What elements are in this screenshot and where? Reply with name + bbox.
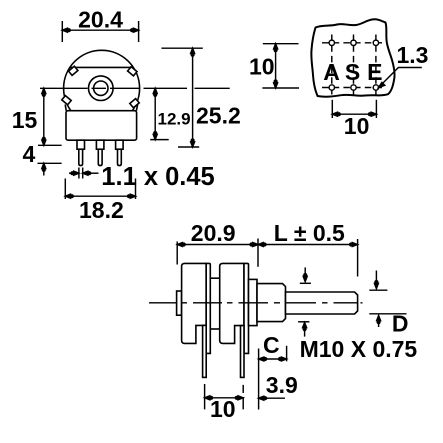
D bottom tick <box>369 313 406 315</box>
dim 20.9 arrow right <box>253 243 258 247</box>
svg-text:20.9: 20.9 <box>191 220 236 246</box>
svg-text:15: 15 <box>12 107 38 133</box>
front view: notch upper-right <box>128 67 137 76</box>
front view: pin 3 narrow <box>118 149 122 165</box>
dim C arrow left <box>259 357 264 361</box>
M10 bottom tick <box>298 321 309 323</box>
side view: wafer 1 body <box>182 263 207 343</box>
front view: top cover chord line <box>70 66 134 68</box>
pad A top <box>329 40 334 45</box>
side view centerline <box>149 302 363 304</box>
D top arrow <box>375 271 377 289</box>
dim 1.1 tick left <box>78 168 80 179</box>
M10 bottom arrow <box>304 323 306 337</box>
svg-text:S: S <box>345 59 360 85</box>
pad view: column centerline S <box>353 35 355 97</box>
svg-text:A: A <box>323 59 340 85</box>
dim 25.2 bottom tick <box>178 146 199 148</box>
dim 10 side arrow left <box>205 396 210 400</box>
pad view: row centerline bottom (dashed) <box>322 87 384 89</box>
side view: long pin 1 <box>203 325 207 377</box>
dim C arrow right <box>281 357 286 361</box>
pad S bottom <box>351 85 356 90</box>
dim 1.1 tick right <box>82 168 84 179</box>
dim 15 line <box>43 88 45 145</box>
dim 20.4 ext left <box>61 21 63 42</box>
pad view dim 10 bottom: line <box>332 113 376 115</box>
front view: pin 2 wide <box>96 140 104 149</box>
front view: notch upper-left <box>68 66 77 75</box>
front view: notch lower-right <box>130 99 139 108</box>
dim 18.2 line <box>65 195 135 197</box>
front view: notch lower-left <box>62 96 71 105</box>
dim 4 bottom arrow <box>43 163 45 175</box>
pad A bottom <box>329 85 334 90</box>
front view: pin 2 narrow <box>98 149 102 165</box>
svg-text:M10 X 0.75: M10 X 0.75 <box>300 336 418 362</box>
shared ext line 20.9/L <box>257 239 259 267</box>
side view: rear tab <box>177 291 182 315</box>
front view: pin 1 narrow <box>79 149 83 165</box>
dim 10 side arrow right <box>238 396 243 400</box>
svg-text:3.9: 3.9 <box>266 372 298 398</box>
dim L arrow left <box>258 243 263 247</box>
svg-text:D: D <box>392 311 409 337</box>
pad view: column centerline E <box>375 35 377 97</box>
svg-text:L ± 0.5: L ± 0.5 <box>274 220 345 246</box>
dim 18.2 arrow left <box>65 194 70 198</box>
pad view dim 10 bottom arrow right <box>371 112 376 116</box>
dim 25.2 top tick <box>161 47 202 49</box>
dim 12.9 line <box>154 88 156 139</box>
svg-text:10: 10 <box>249 54 275 80</box>
pad view dim 10 left arrow bottom <box>274 83 278 88</box>
svg-text:4: 4 <box>23 141 36 167</box>
dim 20.4 arrow right <box>133 28 138 32</box>
pad view dim 10 bottom: ext right <box>375 100 377 118</box>
front view centerline <box>40 87 230 89</box>
svg-text:20.4: 20.4 <box>78 7 123 33</box>
pad view dim 10 left: top tick <box>263 43 299 45</box>
dim 25.2 arrow bottom <box>191 142 195 147</box>
pad E bottom <box>373 85 378 90</box>
front view: right slant flat <box>136 105 137 111</box>
svg-text:10: 10 <box>210 396 236 422</box>
dim 12.9 arrow top <box>153 88 157 93</box>
dim 1.1 left outside arrow <box>69 172 79 174</box>
side view: terminal plate 2 <box>244 263 249 353</box>
front view: pin 1 wide <box>77 140 85 149</box>
front view: shaft inner circle <box>94 81 108 95</box>
svg-text:25.2: 25.2 <box>196 103 241 129</box>
dim L ext right <box>357 239 359 277</box>
dim 20.4 line <box>62 29 138 31</box>
pad view: row centerline top (dashed) <box>322 42 384 44</box>
dim 3.9 right outside arrow <box>259 397 285 399</box>
dim 18.2 ext right <box>135 179 137 200</box>
dim 12.9 arrow bottom <box>153 134 157 139</box>
dim 12.9 bottom tick <box>150 139 169 141</box>
dim 1.1 right outside arrow with tail <box>83 172 99 174</box>
pad view dim 10 bottom: ext left <box>331 100 333 118</box>
front view: lower housing rect <box>66 111 137 141</box>
dim 10 side line <box>205 397 244 399</box>
tick y145 for 15/4 <box>38 144 62 146</box>
dim 18.2 arrow right <box>130 194 135 198</box>
pad view dim 10 bottom arrow left <box>332 112 337 116</box>
svg-text:C: C <box>263 332 280 358</box>
dim L arrow right <box>352 243 357 247</box>
dim 1.3 leader line <box>382 68 422 85</box>
svg-text:12.9: 12.9 <box>158 110 191 129</box>
pad view dim 10 left arrow top <box>274 44 278 49</box>
front view: shaft bushing outer circle <box>89 76 114 101</box>
side view: long pin 2 <box>241 326 245 378</box>
side view: hub top edge <box>210 277 219 279</box>
pad S top <box>351 40 356 45</box>
front view: potentiometer body circle <box>64 50 140 126</box>
dim 25.2 line <box>192 48 194 147</box>
dim 25.2 arrow top <box>191 48 195 53</box>
side view: hub bottom edge <box>210 328 219 330</box>
dim 10 side ext right (shared with 3.9) <box>242 385 244 410</box>
dim 20.4 arrow left <box>62 28 67 32</box>
side view: shaft <box>286 292 358 314</box>
pad view: column centerline A <box>331 35 333 97</box>
dim 10 side ext left <box>204 384 206 409</box>
svg-text:1.1 x 0.45: 1.1 x 0.45 <box>101 163 214 191</box>
front view: pin 3 wide <box>116 140 124 149</box>
dim 20.9 line <box>177 244 258 246</box>
pad E top <box>373 40 378 45</box>
dim 20.4 ext right <box>138 21 140 42</box>
D top tick <box>369 289 387 291</box>
pad view dim 10 left: line <box>275 44 277 88</box>
dim C tick right <box>286 346 288 362</box>
dim C ext left <box>258 349 260 410</box>
side view: wafer 2 body <box>220 263 244 343</box>
D bottom arrow <box>378 316 380 328</box>
dim 18.2 ext left <box>64 179 66 200</box>
dim 1.3 leader arrowhead <box>379 82 385 87</box>
M10 top arrow <box>304 267 306 281</box>
dim L line <box>258 244 358 246</box>
side view: mounting collar <box>249 279 258 325</box>
dim C line <box>259 358 287 360</box>
dim 15 arrow top <box>42 88 46 93</box>
front view: left slant flat <box>65 105 66 111</box>
dim 15 arrow bottom <box>42 140 46 145</box>
svg-text:10: 10 <box>344 113 370 139</box>
M10 top tick <box>300 282 311 284</box>
tick y163 for 4 <box>38 162 62 164</box>
dim 20.9 arrow left <box>177 243 182 247</box>
svg-text:1.3: 1.3 <box>397 42 429 68</box>
dim 20.9 ext left <box>176 242 178 265</box>
pad view dim 10 left: bottom tick <box>262 87 299 89</box>
side view: terminal plate 1 <box>206 263 210 353</box>
svg-text:18.2: 18.2 <box>79 197 124 223</box>
pad view: pcb panel wavy outline <box>311 19 394 96</box>
svg-text:E: E <box>367 59 382 85</box>
side view: threaded bushing <box>257 284 286 322</box>
